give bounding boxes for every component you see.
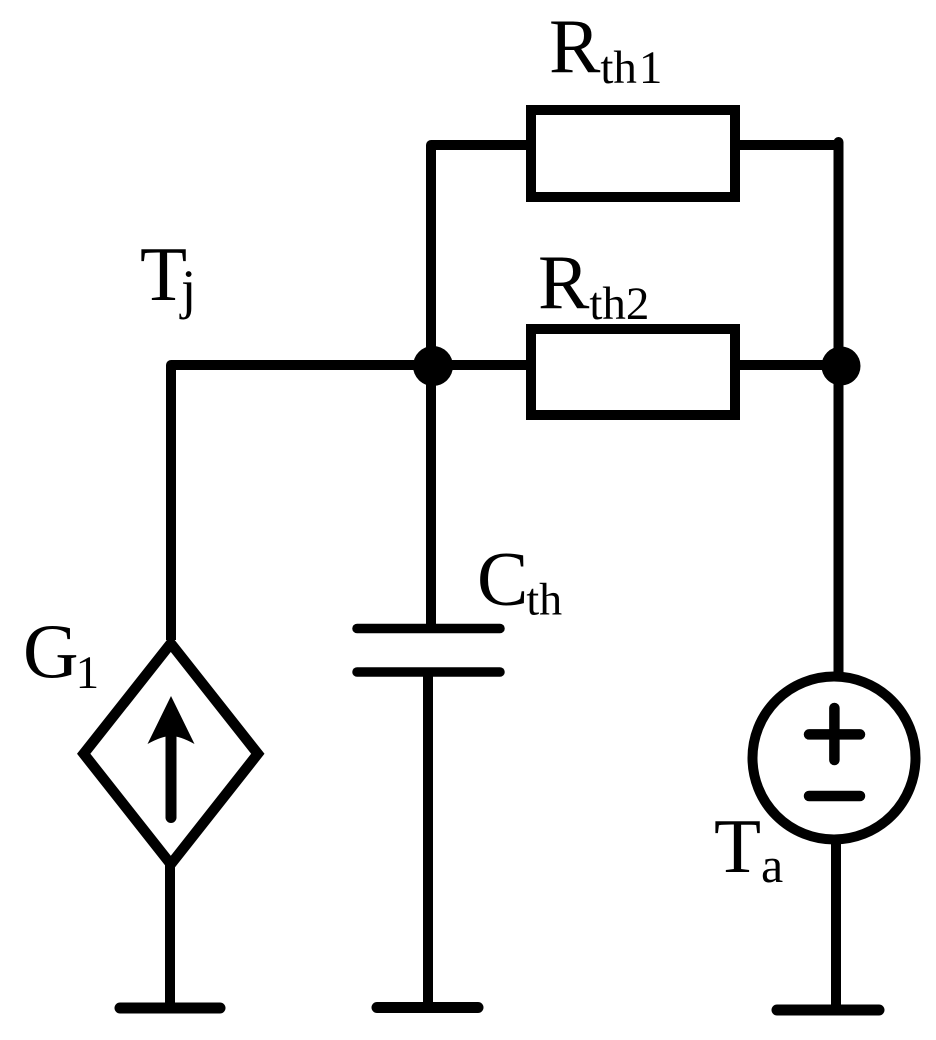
voltage source minus sign — [809, 791, 860, 802]
wire right vertical: top corner down through node B to voltage source — [834, 142, 844, 672]
current source G1 diamond — [84, 644, 258, 865]
ground (right) — [777, 1005, 879, 1016]
wire junction A to R_th2 left terminal — [433, 360, 531, 370]
resistor R_th1 — [531, 110, 735, 197]
wire top loop left: node A up and over to R_th1 — [431, 145, 531, 365]
capacitor C_th bottom plate — [357, 667, 500, 677]
capacitor C_th top plate — [357, 624, 500, 634]
junction node A (dot) — [413, 346, 453, 386]
voltage source Ta circle — [753, 677, 916, 840]
current source G1 arrow shaft — [166, 737, 177, 818]
voltage source plus sign — [809, 729, 860, 740]
junction node B (dot) — [822, 347, 861, 386]
current source G1 arrow head — [148, 696, 195, 744]
wire voltage source bottom to ground — [831, 840, 841, 1010]
wire capacitor bottom plate down to ground — [423, 672, 433, 1008]
wire node A down to capacitor top plate — [426, 365, 436, 630]
ground (middle) — [377, 1002, 478, 1013]
wire R_th2 right terminal to node B — [735, 360, 845, 370]
ground (left) — [120, 1003, 220, 1014]
resistor R_th2 — [531, 329, 735, 415]
wire Tj horizontal to left branch corner — [171, 365, 433, 640]
wire G1 bottom to ground — [165, 858, 175, 1008]
wire R_th1 right terminal to right vertical — [735, 140, 839, 150]
